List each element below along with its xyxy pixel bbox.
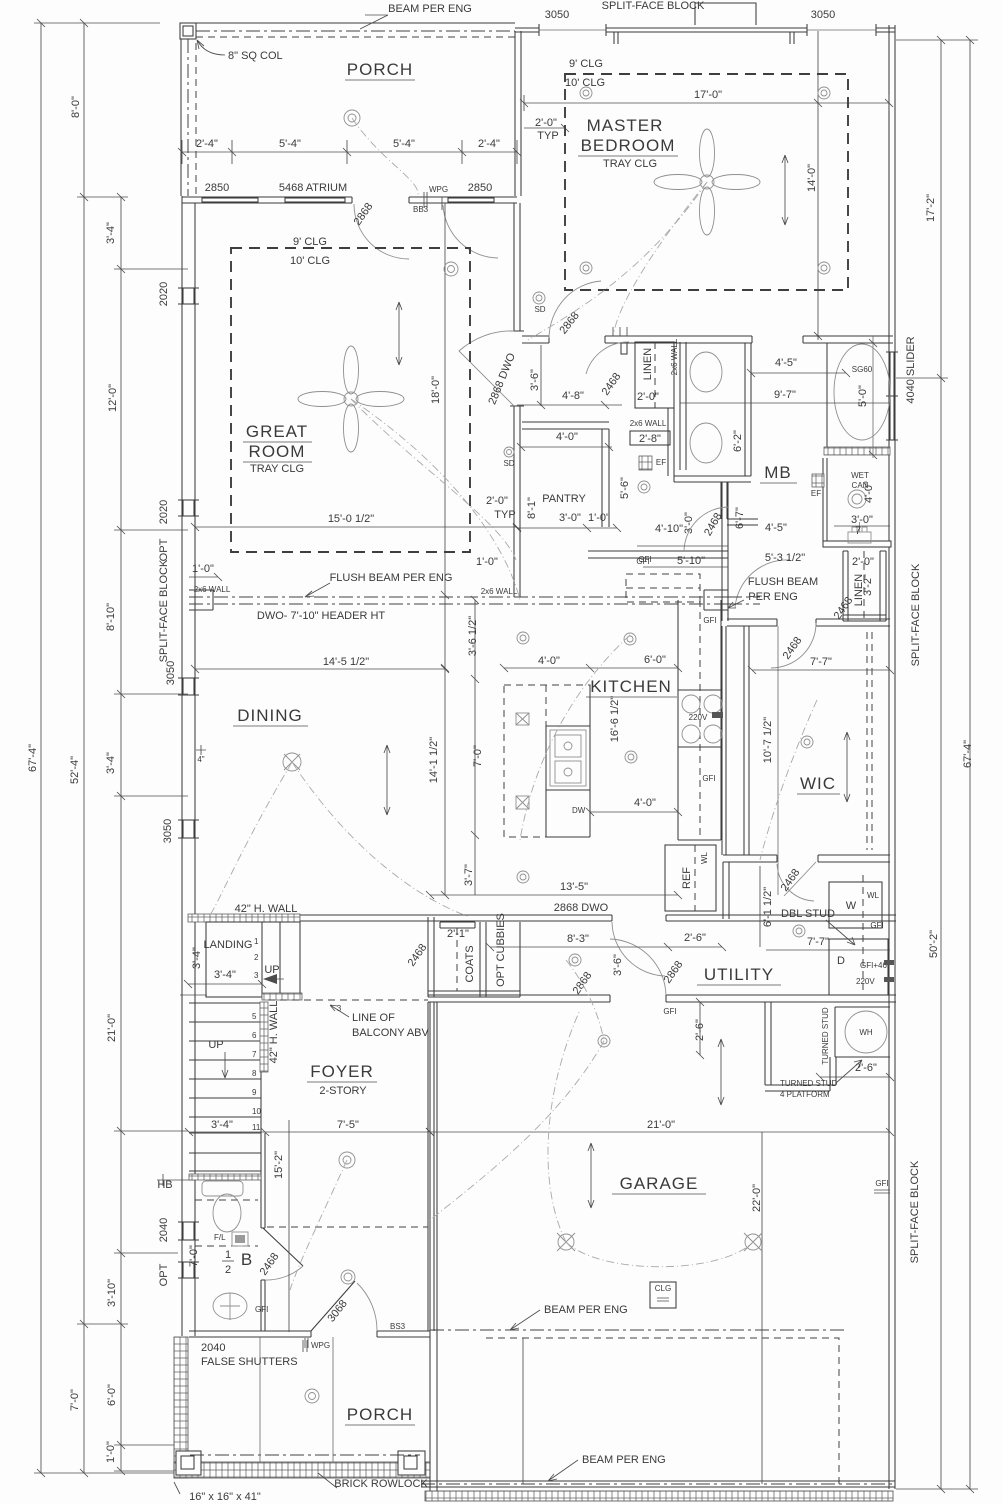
garage CLG box [650,1282,676,1308]
atrium door 2868 swing [354,204,409,259]
svg-text:BEDROOM: BEDROOM [581,136,676,155]
svg-text:18'-0": 18'-0" [430,376,442,404]
porch lines [260,1337,333,1462]
svg-text:3'-4": 3'-4" [214,969,236,981]
svg-text:8: 8 [252,1069,257,1078]
svg-text:3'-6 1/2": 3'-6 1/2" [467,616,479,656]
svg-text:TYP: TYP [537,130,558,142]
bath entry jamb wall [745,343,751,476]
balcony dashed lower [267,1226,428,1228]
svg-text:2468: 2468 [258,1251,282,1278]
master bedroom top wall [515,27,895,29]
svg-text:13'-5": 13'-5" [560,881,588,893]
svg-text:FLUSH BEAM PER ENG: FLUSH BEAM PER ENG [330,572,453,584]
svg-text:8'-0": 8'-0" [70,96,82,118]
svg-text:BS3: BS3 [390,1322,406,1331]
kitchen island dashed [504,685,590,837]
wic shelving dashed [867,632,872,850]
42in wall hatch [188,914,300,922]
svg-text:3050: 3050 [165,661,177,685]
svg-text:3: 3 [254,971,259,980]
garage interior dashed platform [486,1338,839,1487]
garden tub [834,344,890,440]
utility bottom wall [428,995,896,1002]
electrical curves (light dashed) [352,118,418,195]
island cabinet lights [516,713,529,809]
bath/foyer front wall [189,1331,430,1337]
svg-text:50'-2": 50'-2" [928,930,940,958]
pantry walls [522,422,609,429]
svg-text:6: 6 [252,1031,257,1040]
svg-text:11: 11 [252,1123,261,1132]
svg-text:2'-1": 2'-1" [447,928,469,940]
svg-text:TURNED STUD: TURNED STUD [780,1079,838,1088]
svg-text:KITCHEN: KITCHEN [590,677,672,696]
utility door 2868 lower [610,939,666,995]
svg-text:2468: 2468 [600,371,624,398]
svg-text:1'-0": 1'-0" [588,512,610,524]
svg-text:2468: 2468 [781,635,805,662]
svg-text:3050: 3050 [811,9,835,21]
svg-text:PORCH: PORCH [347,60,413,79]
svg-text:7'-5": 7'-5" [337,1119,359,1131]
stove [678,690,721,747]
svg-text:1: 1 [254,937,259,946]
svg-text:9: 9 [252,1088,257,1097]
svg-text:BALCONY ABV: BALCONY ABV [352,1027,429,1039]
svg-text:HB: HB [157,1179,172,1191]
svg-text:1'-0": 1'-0" [192,563,214,575]
svg-text:WPG: WPG [311,1341,330,1350]
left chain 3 [120,197,122,1471]
svg-text:6'-0": 6'-0" [644,654,666,666]
door 2868 DWO from hall to great room [459,331,514,406]
svg-text:5'-4": 5'-4" [393,138,415,150]
svg-text:UP: UP [264,964,279,976]
svg-text:2'-4": 2'-4" [478,138,500,150]
porch corner post right [398,1451,425,1475]
svg-text:9' CLG: 9' CLG [293,236,327,248]
svg-text:10'-7 1/2": 10'-7 1/2" [762,717,774,763]
svg-text:3'-0": 3'-0" [559,512,581,524]
svg-text:2'-4": 2'-4" [196,138,218,150]
porch lower-left hatched wall [174,1337,188,1478]
svg-text:FOYER: FOYER [310,1062,374,1081]
master entry door 2868 swing [549,281,601,338]
svg-text:3: 3 [337,1004,342,1013]
svg-text:2468: 2468 [406,942,430,969]
master suite bottom wall segments [522,336,893,343]
svg-text:8'-1": 8'-1" [526,497,538,519]
svg-text:BEAM PER ENG: BEAM PER ENG [388,3,472,15]
svg-text:FLUSH BEAM: FLUSH BEAM [748,576,818,588]
svg-text:4 PLATFORM: 4 PLATFORM [780,1090,830,1099]
dining light [283,753,301,771]
svg-text:4'-0": 4'-0" [538,655,560,667]
svg-text:8'-10": 8'-10" [105,603,117,631]
svg-text:2x6 WALL: 2x6 WALL [670,338,679,375]
svg-text:DW: DW [572,806,586,815]
right outer wall [889,25,895,1489]
porch top edge [181,22,515,24]
svg-text:2'-0": 2'-0" [486,495,508,507]
svg-text:2'-0": 2'-0" [535,117,557,129]
svg-text:WET: WET [851,471,869,480]
sink bottom bath [213,1293,247,1319]
toilet near linen [848,532,871,543]
balcony dashed above foyer [268,999,428,1001]
stairs bottom steps [189,1133,261,1171]
utility room walls [519,922,521,997]
svg-text:3050: 3050 [545,9,569,21]
front wall porch/great room with windows [182,197,517,203]
svg-text:4'-5": 4'-5" [765,522,787,534]
porch corner post left [176,1451,201,1475]
svg-text:3'-10": 3'-10" [106,1279,118,1307]
garage wire arc [566,1242,753,1267]
svg-text:7'-7": 7'-7" [807,936,829,948]
svg-text:TRAY CLG: TRAY CLG [603,158,657,170]
42 in wall vertical hatch [260,1002,268,1072]
water heater [835,1007,890,1057]
porch light [344,110,360,126]
left outer wall with window breaks [182,196,195,1336]
svg-text:14'-0": 14'-0" [806,164,818,192]
master left wall [515,31,521,196]
svg-text:15'-0 1/2": 15'-0 1/2" [328,513,374,525]
svg-text:PANTRY: PANTRY [542,493,586,505]
hall/wic vertical wall [722,482,728,621]
great room arrow [396,302,402,365]
svg-text:GFI: GFI [703,616,716,625]
master 14'-0 [817,31,819,340]
porch left wall beam [187,39,189,196]
svg-text:2020: 2020 [158,500,170,524]
atrium door arc [443,205,498,258]
svg-text:4'-0": 4'-0" [556,431,578,443]
great room tray ceiling dashed [231,248,470,552]
utility-garage arrow [718,1039,724,1105]
tub shelf [202,1181,243,1196]
svg-text:17'-0": 17'-0" [694,89,722,101]
svg-text:B: B [241,1250,253,1269]
svg-text:MASTER: MASTER [587,116,664,135]
ceiling fan great room [298,346,404,452]
svg-text:2868 DWO: 2868 DWO [486,351,518,406]
garage bottom beam [421,1483,895,1485]
svg-text:220V: 220V [689,713,708,722]
column 8" SQ COL [180,23,196,39]
svg-text:FALSE SHUTTERS: FALSE SHUTTERS [201,1356,298,1368]
linen closet right [843,551,886,621]
porch inner beam line [190,1454,420,1456]
svg-text:OPT: OPT [158,1263,170,1286]
svg-text:6'-7": 6'-7" [734,507,746,529]
porch left balcony dashed [195,43,197,196]
svg-text:CLG: CLG [655,1284,671,1293]
svg-text:EF: EF [811,489,821,498]
porch top beam [196,30,515,32]
svg-text:GARAGE: GARAGE [620,1174,699,1193]
svg-text:2468: 2468 [702,511,725,538]
landing [206,922,300,997]
svg-text:2040: 2040 [201,1342,225,1354]
hall lights small [624,633,636,645]
svg-text:WPG: WPG [429,185,448,194]
right chain 17'-2 / 50'-2 [940,40,942,1489]
svg-text:4040 SLIDER: 4040 SLIDER [905,336,917,403]
svg-text:2'-8": 2'-8" [639,433,661,445]
wic left wall dbl stud [722,626,749,855]
svg-text:2x6 WALL: 2x6 WALL [481,587,518,596]
svg-text:GFI: GFI [255,1305,268,1314]
left chain 67'-4" [40,23,42,1473]
REF [665,845,716,911]
svg-text:SPLIT-FACE BLOCK: SPLIT-FACE BLOCK [158,559,170,662]
svg-text:GFI: GFI [702,774,715,783]
vanity sinks [690,352,722,392]
svg-text:14'-5 1/2": 14'-5 1/2" [323,656,369,668]
svg-text:2'-0": 2'-0" [637,391,659,403]
svg-text:SG60: SG60 [852,365,873,374]
svg-text:EF: EF [656,458,666,467]
ceiling lights master [580,87,830,274]
svg-text:3'-4": 3'-4" [105,752,117,774]
wic arrow [844,732,850,802]
garage lights [557,1233,762,1251]
garage bottom hatch strip [425,1491,893,1501]
svg-text:2'-6": 2'-6" [694,1019,706,1041]
svg-text:15'-2": 15'-2" [273,1151,285,1179]
svg-text:42" H. WALL: 42" H. WALL [235,903,298,915]
svg-text:BB3: BB3 [413,205,429,214]
svg-text:2: 2 [225,1264,231,1276]
foyer light [339,1152,355,1168]
svg-text:7: 7 [855,525,861,537]
garage arrow [588,1143,594,1208]
flush beam across great room/dining [189,597,728,604]
svg-text:16" x 16" x 41": 16" x 16" x 41" [189,1491,261,1503]
svg-text:17'-2": 17'-2" [925,194,937,222]
svg-text:PORCH: PORCH [347,1405,413,1424]
svg-text:8'-3": 8'-3" [567,933,589,945]
svg-text:9' CLG: 9' CLG [569,58,603,70]
svg-text:3'-4": 3'-4" [105,222,117,244]
svg-text:2-STORY: 2-STORY [319,1085,367,1097]
hall bottom wall (5-10) [588,551,728,558]
svg-text:6'-1 1/2": 6'-1 1/2" [762,887,774,927]
svg-text:2040: 2040 [158,1218,170,1242]
svg-text:220V: 220V [856,977,875,986]
garage mid beam [430,1329,846,1331]
svg-text:1'-0": 1'-0" [476,556,498,568]
svg-text:WL: WL [867,891,880,900]
svg-text:UP: UP [208,1039,223,1051]
svg-text:UTILITY: UTILITY [704,965,774,984]
wet can circle [848,490,866,508]
porch dim line [182,151,517,153]
garage left wall [430,1002,437,1492]
dining arrow [384,745,390,815]
svg-text:10' CLG: 10' CLG [290,255,330,267]
svg-text:7: 7 [252,1050,257,1059]
svg-text:4'-5": 4'-5" [775,357,797,369]
porch bottom hatched wall [174,1462,430,1478]
great room right wall lower [514,406,520,597]
svg-text:14'-1 1/2": 14'-1 1/2" [428,737,440,783]
svg-text:GFI: GFI [870,921,883,930]
svg-text:6'-0": 6'-0" [106,1384,118,1406]
svg-text:21'-0": 21'-0" [106,1014,118,1042]
coats closet [428,917,486,997]
porch balcony dashed [196,36,515,38]
bath right wall [261,1133,265,1331]
svg-text:5'-6": 5'-6" [619,477,631,499]
wic top wall [727,619,890,626]
svg-text:BEAM PER ENG: BEAM PER ENG [544,1304,628,1316]
svg-text:SPLIT-FACE BLOCK: SPLIT-FACE BLOCK [910,563,922,666]
svg-text:DWO- 7'-10" HEADER HT: DWO- 7'-10" HEADER HT [257,610,386,622]
svg-text:22'-0": 22'-0" [751,1184,763,1212]
svg-text:3'-4": 3'-4" [191,947,203,969]
bath door 2468 [263,1228,303,1266]
great room right wall upper [514,203,520,331]
kitchen/stairs bottom wall [188,915,896,921]
svg-text:3'-6": 3'-6" [612,954,624,976]
svg-text:SPLIT-FACE BLOCK: SPLIT-FACE BLOCK [909,1160,921,1263]
svg-text:W: W [846,900,857,912]
svg-text:7'-0": 7'-0" [69,1389,81,1411]
svg-text:OPT CUBBIES: OPT CUBBIES [495,913,507,987]
svg-text:GFI: GFI [638,555,651,564]
wall notch at wc room [621,343,627,354]
master 17'-0 dim [524,102,889,104]
svg-text:MB: MB [764,463,792,482]
porch left wall solid [180,39,182,196]
svg-text:3'-4": 3'-4" [211,1119,233,1131]
right chain 67'-4 [969,40,971,1489]
svg-text:3068: 3068 [325,1298,350,1325]
wc room walls [668,408,674,476]
svg-text:2850: 2850 [468,182,492,194]
svg-text:4'-8": 4'-8" [562,390,584,402]
svg-text:2868: 2868 [352,201,376,228]
svg-text:5'-10": 5'-10" [677,555,705,567]
svg-text:SD: SD [534,305,545,314]
svg-text:4'-10": 4'-10" [655,523,683,535]
svg-text:OPT: OPT [158,538,170,561]
svg-text:SD: SD [503,459,514,468]
svg-text:3050: 3050 [162,819,174,843]
svg-text:REF: REF [681,867,693,889]
svg-text:16'-6 1/2": 16'-6 1/2" [609,696,621,742]
svg-text:COATS: COATS [464,945,476,982]
foyer right wall / garage left upper [428,1002,434,1331]
porch bottom light [305,1389,319,1403]
svg-text:GFI: GFI [875,1179,888,1188]
svg-text:LINE OF: LINE OF [352,1012,395,1024]
utility door 2868 upper [612,922,665,976]
svg-text:LINEN: LINEN [642,348,654,380]
svg-text:1: 1 [225,1249,231,1261]
svg-text:10: 10 [252,1107,261,1116]
svg-text:7'-7": 7'-7" [810,656,832,668]
dim chains center [444,203,446,895]
svg-text:42" H. WALL: 42" H. WALL [268,1001,280,1064]
svg-text:BRICK ROWLOCK: BRICK ROWLOCK [334,1478,428,1490]
svg-text:2: 2 [254,953,259,962]
svg-text:5: 5 [252,1012,257,1021]
top pop-out rectangle [695,3,756,25]
svg-text:4": 4" [197,755,204,764]
hall door arc to MB [735,560,790,608]
wet can / tub walls [823,458,827,541]
svg-text:2868 DWO: 2868 DWO [554,902,609,914]
svg-text:DINING: DINING [237,706,303,725]
svg-text:2'-6": 2'-6" [684,932,706,944]
smoke detectors [533,292,545,304]
left chain 2 [83,23,85,1473]
svg-text:1'-0": 1'-0" [105,1441,117,1463]
svg-text:GFI: GFI [663,1007,676,1016]
svg-text:5468 ATRIUM: 5468 ATRIUM [279,182,347,194]
svg-text:4'-0": 4'-0" [634,797,656,809]
svg-text:DBL STUD: DBL STUD [781,908,835,920]
svg-text:7'-0": 7'-0" [188,1245,200,1267]
svg-text:ROOM: ROOM [249,442,306,461]
master tray ceiling dashed [565,74,848,290]
svg-text:TYP: TYP [494,509,515,521]
wic door 2468 [771,623,816,668]
svg-text:67'-4": 67'-4" [962,740,974,768]
svg-text:21'-0": 21'-0" [647,1119,675,1131]
svg-text:2868: 2868 [662,959,686,986]
svg-text:BEAM PER ENG: BEAM PER ENG [582,1454,666,1466]
toilet [213,1194,241,1232]
svg-text:3'-2": 3'-2" [862,574,874,596]
svg-text:LANDING: LANDING [204,939,253,951]
W and D [829,882,882,928]
svg-text:D: D [837,955,845,967]
svg-text:5'-0": 5'-0" [857,385,869,407]
svg-text:3'-7": 3'-7" [463,864,475,886]
svg-text:12'-0": 12'-0" [107,384,119,412]
svg-text:3'-6": 3'-6" [529,369,541,391]
svg-text:2x6 WALL: 2x6 WALL [630,419,667,428]
svg-text:5'-4": 5'-4" [279,138,301,150]
svg-text:2868: 2868 [571,970,595,997]
pantry cabinets dashed [626,574,700,602]
svg-text:GREAT: GREAT [246,422,308,441]
svg-text:WL: WL [700,851,709,864]
svg-text:6'-2": 6'-2" [732,430,744,452]
stairs lower flight [189,1003,261,1133]
master bath vanity wall [680,342,686,470]
svg-text:WH: WH [859,1028,873,1037]
svg-text:67'-4": 67'-4" [27,744,39,772]
kitchen right counter [678,600,721,840]
svg-text:2'-0": 2'-0" [852,556,874,568]
svg-text:TRAY CLG: TRAY CLG [250,463,304,475]
svg-text:SPLIT-FACE BLOCK: SPLIT-FACE BLOCK [602,0,705,12]
svg-text:F/L: F/L [214,1233,226,1242]
wic lower door 2468 [777,862,816,901]
ceiling fan master [654,129,760,235]
svg-text:52'-4": 52'-4" [69,756,81,784]
svg-text:2468: 2468 [832,595,856,622]
island sink counter [546,685,590,837]
svg-text:8" SQ COL: 8" SQ COL [228,50,283,62]
